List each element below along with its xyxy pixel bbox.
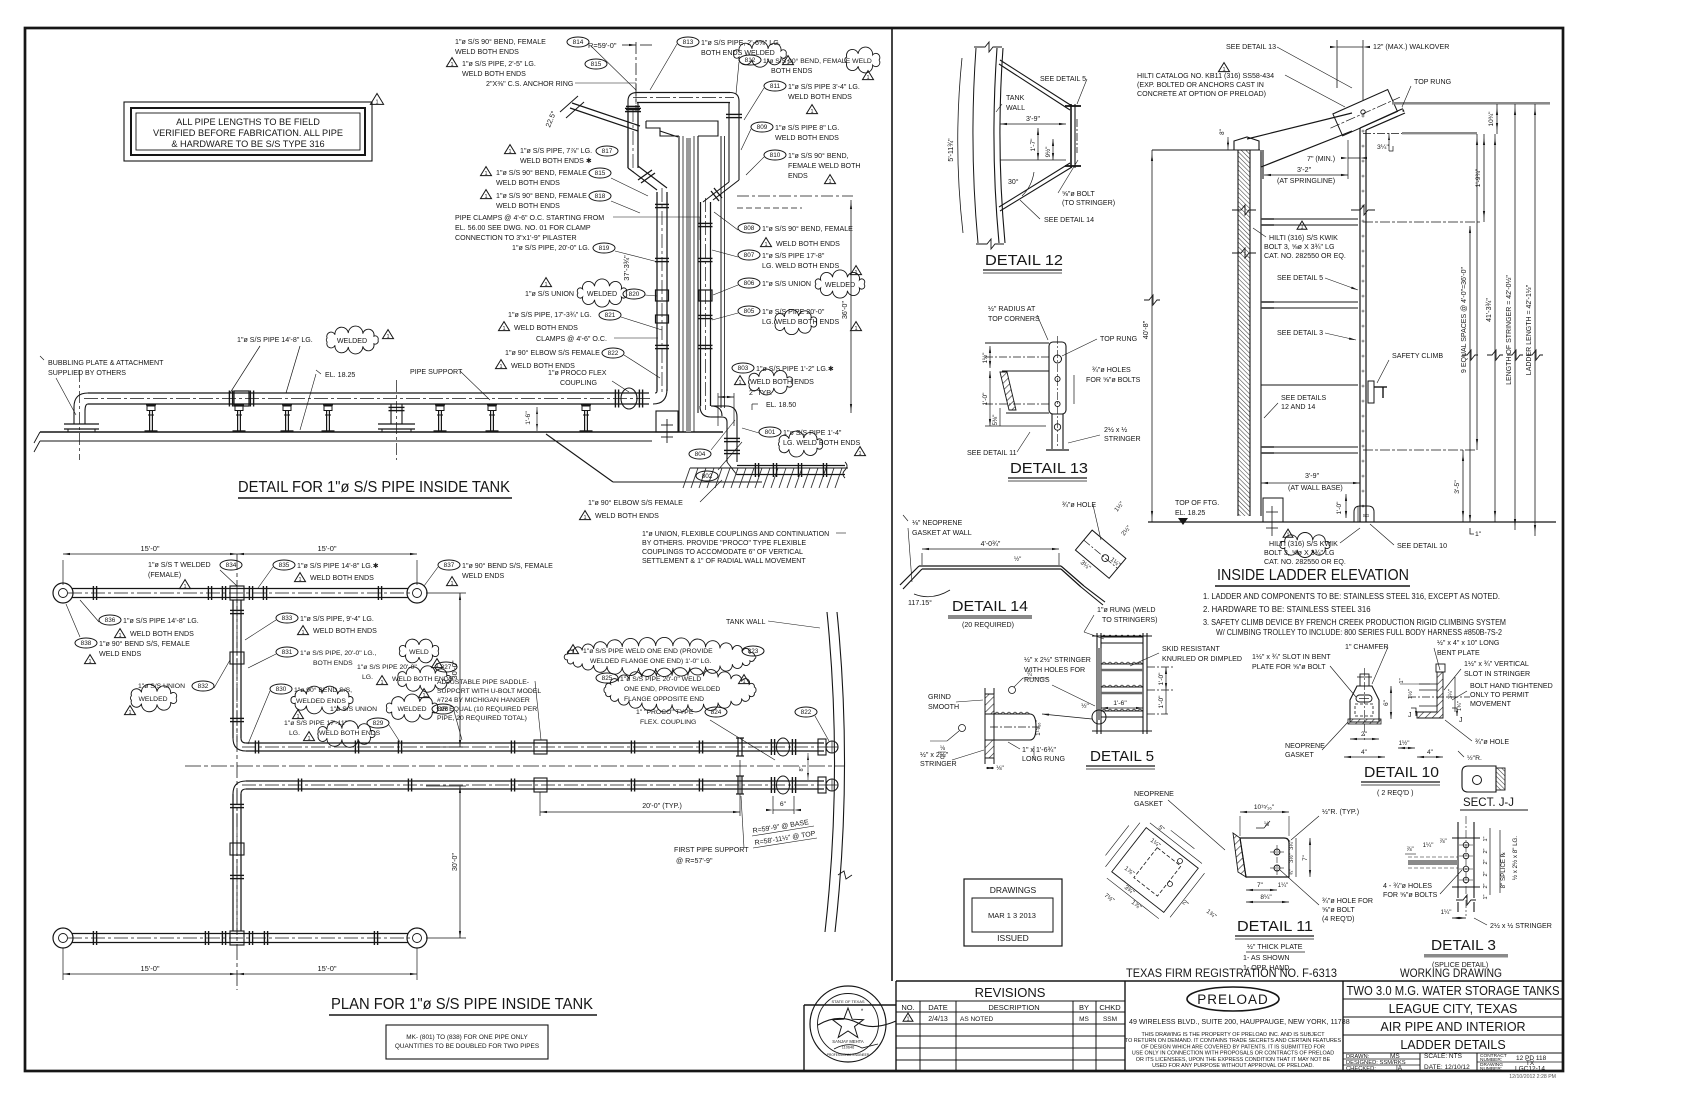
- plan 30-0 dims right: [426, 592, 466, 594]
- svg-text:2"X⅜" C.S. ANCHOR RING: 2"X⅜" C.S. ANCHOR RING: [486, 80, 573, 88]
- svg-text:GASKET: GASKET: [1134, 800, 1163, 808]
- callout 805: [738, 306, 760, 316]
- svg-text:1"ø S/S 90° BEND, FEMALE: 1"ø S/S 90° BEND, FEMALE: [496, 169, 587, 177]
- svg-text:1½": 1½": [982, 353, 989, 364]
- svg-text:⅞": ⅞": [1439, 838, 1446, 845]
- svg-text:SUPPORT WITH U-BOLT MODEL: SUPPORT WITH U-BOLT MODEL: [437, 688, 541, 695]
- top horizontal pipe of riser: [637, 92, 730, 94]
- svg-text:1'-0": 1'-0": [1158, 672, 1165, 686]
- svg-text:8¼": 8¼": [1260, 894, 1272, 901]
- svg-text:1: 1: [583, 515, 586, 521]
- ladder top bent walkover: [1360, 109, 1405, 130]
- svg-text:1¼": 1¼": [1423, 842, 1434, 849]
- svg-text:12 AND 14: 12 AND 14: [1281, 403, 1315, 411]
- svg-text:814: 814: [573, 39, 584, 46]
- svg-text:15'-0": 15'-0": [140, 964, 159, 973]
- svg-text:SCALE: NTS: SCALE: NTS: [1424, 1053, 1463, 1060]
- dim length of stringer: [1514, 104, 1516, 530]
- svg-text:2": 2": [1483, 883, 1489, 888]
- svg-text:1"ø S/S PIPE, 2'-5" LG.: 1"ø S/S PIPE, 2'-5" LG.: [462, 60, 536, 68]
- svg-text:824: 824: [711, 709, 722, 716]
- callout 815 top: [447, 58, 458, 67]
- detail 5 weld symbols: [1009, 687, 1016, 694]
- svg-text:DETAIL 3: DETAIL 3: [1431, 938, 1496, 954]
- ladder base shoe: [1354, 506, 1374, 522]
- proco flex coupling elevation: [614, 390, 616, 408]
- svg-text:DETAIL 10: DETAIL 10: [1364, 765, 1439, 781]
- svg-text:1: 1: [858, 451, 861, 457]
- svg-text:AIR PIPE AND INTERIOR: AIR PIPE AND INTERIOR: [1380, 1020, 1525, 1034]
- svg-text:3'-9": 3'-9": [1305, 472, 1320, 480]
- svg-text:1: 1: [866, 75, 869, 81]
- svg-text:½" x 4" x 10" LONG: ½" x 4" x 10" LONG: [1437, 639, 1499, 647]
- svg-text:WELDED ENDS: WELDED ENDS: [296, 698, 346, 705]
- plan upper main elbow: [233, 738, 246, 751]
- svg-text:DETAIL 14: DETAIL 14: [952, 599, 1028, 615]
- svg-text:SECT. J-J: SECT. J-J: [1463, 797, 1514, 809]
- main horizontal pipe elevation: [88, 392, 649, 394]
- detail 10 gasket strip: [1348, 719, 1381, 724]
- union on left riser: [656, 290, 669, 301]
- svg-text:819: 819: [599, 245, 610, 252]
- under floor pipe run: [737, 465, 845, 467]
- svg-text:⅛" NEOPRENE: ⅛" NEOPRENE: [912, 519, 962, 527]
- svg-text:THIS DRAWING IS THE PROPERTY O: THIS DRAWING IS THE PROPERTY OF PRELOAD …: [1141, 1032, 1325, 1038]
- svg-text:1: 1: [375, 99, 378, 105]
- svg-text:1"ø S/S PIPE, 7⅞" LG.: 1"ø S/S PIPE, 7⅞" LG.: [520, 147, 592, 155]
- svg-text:1: 1: [484, 194, 487, 200]
- svg-text:4": 4": [1427, 749, 1434, 756]
- svg-text:WELDED: WELDED: [587, 290, 617, 298]
- callout 801: [759, 427, 781, 437]
- pipe supports elevation: [146, 404, 156, 406]
- svg-text:ONLY TO PERMIT: ONLY TO PERMIT: [1470, 691, 1530, 699]
- svg-text:⅝"ø BOLT: ⅝"ø BOLT: [1062, 190, 1095, 198]
- detail 13 plate: [1049, 342, 1066, 414]
- plan mk note box: [386, 1025, 548, 1059]
- svg-text:MS: MS: [1390, 1053, 1400, 1060]
- callout 838: [75, 638, 97, 648]
- svg-text:CAT. NO. 282550 OR EQ.: CAT. NO. 282550 OR EQ.: [1264, 252, 1346, 260]
- ladder top rail level lines: [1392, 102, 1550, 105]
- floor edge profile: [546, 434, 613, 482]
- svg-text:815: 815: [591, 61, 602, 68]
- svg-text:3¼": 3¼": [1377, 144, 1389, 151]
- ladder safety climb: [1368, 381, 1374, 403]
- title block data cells: [1342, 1053, 1344, 1071]
- svg-text:CAT. NO. 282550 OR EQ.: CAT. NO. 282550 OR EQ.: [1264, 558, 1346, 566]
- svg-text:804: 804: [695, 451, 706, 458]
- engineer seal: [810, 986, 886, 1062]
- svg-text:MOVEMENT: MOVEMENT: [1470, 700, 1512, 708]
- callout 833: [276, 613, 298, 623]
- springline dash dot to divider: [737, 195, 853, 197]
- svg-text:(TO STRINGER): (TO STRINGER): [1062, 199, 1115, 207]
- svg-text:1"ø S/S PIPE 20'-0": 1"ø S/S PIPE 20'-0": [357, 664, 417, 671]
- svg-text:½" THICK PLATE: ½" THICK PLATE: [1247, 943, 1303, 951]
- svg-text:3'-2": 3'-2": [1297, 166, 1312, 174]
- svg-text:1- AS SHOWN: 1- AS SHOWN: [1243, 954, 1290, 962]
- svg-text:6": 6": [780, 801, 787, 808]
- svg-text:1: 1: [307, 736, 310, 742]
- svg-text:1"ø S/S 90° BEND,: 1"ø S/S 90° BEND,: [788, 152, 849, 160]
- svg-text:MK- (801) TO (838) FOR ONE PIP: MK- (801) TO (838) FOR ONE PIPE ONLY: [406, 1034, 528, 1041]
- svg-text:818: 818: [595, 193, 606, 200]
- svg-text:BOTH ENDS: BOTH ENDS: [771, 67, 813, 75]
- svg-text:5⅜": 5⅜": [992, 415, 999, 426]
- svg-text:LG. WELD BOTH ENDS: LG. WELD BOTH ENDS: [762, 262, 840, 270]
- svg-text:SUPPLIED BY OTHERS: SUPPLIED BY OTHERS: [48, 369, 126, 377]
- svg-text:1"ø S/S PIPE 20'-0" WELD: 1"ø S/S PIPE 20'-0" WELD: [620, 676, 701, 683]
- wall corbel top: [646, 121, 718, 137]
- svg-text:837: 837: [444, 562, 455, 569]
- detail 5 dash extensions: [1147, 666, 1175, 668]
- svg-text:SEE DETAIL 5: SEE DETAIL 5: [1277, 274, 1323, 282]
- svg-text:(EXP. BOLTED OR ANCHORS CAST I: (EXP. BOLTED OR ANCHORS CAST IN: [1137, 81, 1264, 89]
- svg-text:1: 1: [502, 326, 505, 332]
- svg-text:9½": 9½": [1045, 147, 1052, 158]
- ladder stringer: [1359, 128, 1361, 522]
- svg-text:1¾": 1¾": [1457, 701, 1463, 711]
- svg-text:WELD BOTH ENDS: WELD BOTH ENDS: [595, 512, 659, 520]
- svg-text:DETAIL 5: DETAIL 5: [1090, 749, 1154, 765]
- svg-text:1"ø 90° BEND S/S, FEMALE: 1"ø 90° BEND S/S, FEMALE: [462, 562, 553, 570]
- svg-text:(SPLICE DETAIL): (SPLICE DETAIL): [1432, 961, 1488, 969]
- svg-text:TANK WALL: TANK WALL: [726, 618, 765, 626]
- svg-text:1'-6": 1'-6": [1113, 700, 1127, 707]
- svg-text:822: 822: [608, 350, 619, 357]
- svg-text:1"ø PROCO FLEX: 1"ø PROCO FLEX: [548, 369, 607, 377]
- svg-text:GASKET: GASKET: [1285, 751, 1314, 759]
- svg-text:SEE DETAIL 11: SEE DETAIL 11: [967, 449, 1017, 457]
- detail 12 bottom brace: [999, 163, 1070, 207]
- svg-text:DETAIL 11: DETAIL 11: [1237, 919, 1313, 935]
- svg-text:WELD BOTH ENDS: WELD BOTH ENDS: [788, 93, 852, 101]
- svg-text:WELD BOTH ENDS: WELD BOTH ENDS: [750, 378, 814, 386]
- svg-text:802: 802: [702, 473, 713, 480]
- svg-text:NUMBER:: NUMBER:: [1480, 1066, 1502, 1072]
- svg-text:SSM: SSM: [1103, 1016, 1117, 1023]
- svg-text:WELD BOTH ENDS: WELD BOTH ENDS: [496, 179, 560, 187]
- callout 825: [596, 673, 618, 683]
- svg-text:1"ø S/S T WELDED: 1"ø S/S T WELDED: [148, 561, 211, 569]
- callout 808: [738, 223, 760, 233]
- svg-text:EL. 18.25: EL. 18.25: [1175, 509, 1205, 517]
- plan top pipe: [72, 588, 408, 590]
- flanges on right riser: [699, 222, 713, 224]
- svg-text:DRAWINGS: DRAWINGS: [990, 885, 1037, 895]
- svg-text:TEXAS FIRM REGISTRATION NO. F-: TEXAS FIRM REGISTRATION NO. F-6313: [1126, 968, 1337, 980]
- svg-text:½" RADIUS AT: ½" RADIUS AT: [988, 305, 1036, 313]
- svg-text:1'-0": 1'-0": [1158, 695, 1165, 709]
- svg-text:WELD BOTH ENDS: WELD BOTH ENDS: [514, 324, 578, 332]
- svg-text:DESCRIPTION: DESCRIPTION: [988, 1003, 1039, 1012]
- detail 5 rungs: [1101, 636, 1143, 638]
- svg-text:1. LADDER AND COMPONENTS TO B: 1. LADDER AND COMPONENTS TO BE: STAINLES…: [1203, 592, 1500, 601]
- svg-text:STATE OF TEXAS: STATE OF TEXAS: [831, 999, 864, 1004]
- svg-text:STRINGER: STRINGER: [1104, 435, 1141, 443]
- svg-text:1: 1: [1300, 225, 1303, 231]
- ladder dome slope: [1247, 113, 1352, 139]
- detail 12 stringer: [1070, 104, 1072, 168]
- svg-text:1: 1: [854, 326, 857, 332]
- ladder elevation wall: [1238, 150, 1250, 516]
- svg-text:HILTI CATALOG NO. KB11 (316) S: HILTI CATALOG NO. KB11 (316) SS58-434: [1137, 72, 1274, 80]
- svg-text:STRINGER: STRINGER: [920, 760, 957, 768]
- detail 10 bent plate profile: [1350, 686, 1379, 722]
- svg-text:SEE DETAILS: SEE DETAILS: [1281, 394, 1326, 402]
- svg-text:8" SPLICE ℞: 8" SPLICE ℞: [1500, 852, 1507, 889]
- svg-text:WELD BOTH ENDS ✱: WELD BOTH ENDS ✱: [520, 157, 592, 165]
- svg-text:834: 834: [226, 562, 237, 569]
- svg-text:USED FOR ANY PURPOSE WITHOUT A: USED FOR ANY PURPOSE WITHOUT APPROVAL OF…: [1152, 1063, 1314, 1069]
- svg-text:SETTLEMENT & 1" OF RADIAL WALL: SETTLEMENT & 1" OF RADIAL WALL MOVEMENT: [642, 558, 806, 565]
- svg-text:15'-0": 15'-0": [317, 544, 336, 553]
- dim ladder length: [1534, 104, 1536, 536]
- svg-text:TOP CORNERS: TOP CORNERS: [988, 315, 1040, 323]
- svg-text:1"ø S/S PIPE 17'-11": 1"ø S/S PIPE 17'-11": [284, 720, 348, 727]
- svg-text:803: 803: [738, 365, 749, 372]
- svg-text:LG. WELD BOTH ENDS: LG. WELD BOTH ENDS: [762, 318, 840, 326]
- detail 5 circle callout: [1092, 710, 1106, 724]
- svg-text:835: 835: [279, 562, 290, 569]
- svg-text:1" x 1'-6¾": 1" x 1'-6¾": [1022, 746, 1056, 754]
- svg-text:FIRST PIPE SUPPORT: FIRST PIPE SUPPORT: [674, 846, 749, 854]
- svg-text:BOLT 3, ⅝ø X 3¾" LG: BOLT 3, ⅝ø X 3¾" LG: [1264, 243, 1334, 251]
- svg-text:1" "PROCO" TYPE: 1" "PROCO" TYPE: [636, 709, 694, 716]
- svg-text:DETAIL 13: DETAIL 13: [1010, 461, 1088, 477]
- underfloor pipe break: [843, 462, 847, 478]
- svg-text:1: 1: [828, 179, 831, 185]
- detail 14 angle arc: [914, 590, 950, 597]
- detail 10 right dims: [1400, 683, 1430, 685]
- drawings issued stamp: [964, 879, 1062, 946]
- svg-text:10¾": 10¾": [1488, 111, 1495, 127]
- svg-text:REVISIONS: REVISIONS: [975, 985, 1046, 1000]
- svg-text:WELDED FLANGE ONE END) 1'-0" L: WELDED FLANGE ONE END) 1'-0" LG.: [590, 658, 712, 665]
- detail 3 splice bar: [1457, 822, 1459, 898]
- svg-text:LGC12-14: LGC12-14: [1515, 1066, 1545, 1073]
- svg-text:1"ø S/S PIPE 3'-4" LG.: 1"ø S/S PIPE 3'-4" LG.: [788, 83, 860, 91]
- svg-text:SEE DETAIL 10: SEE DETAIL 10: [1397, 542, 1447, 550]
- svg-text:2" TYP.: 2" TYP.: [749, 390, 772, 397]
- svg-text:823: 823: [748, 648, 759, 655]
- svg-text:1"ø S/S PIPE 17'-8": 1"ø S/S PIPE 17'-8": [762, 252, 825, 260]
- svg-text:1"ø 90° ELBOW S/S FEMALE: 1"ø 90° ELBOW S/S FEMALE: [588, 499, 683, 507]
- svg-text:NO.: NO.: [901, 1003, 914, 1012]
- plan vertical pipe upper: [232, 600, 234, 738]
- svg-text:1: 1: [508, 149, 511, 155]
- svg-text:2½ x ½: 2½ x ½: [1104, 426, 1127, 434]
- title block outline: [896, 980, 1563, 982]
- svg-text:DATE: DATE: [928, 1003, 947, 1012]
- svg-text:WELDED: WELDED: [397, 706, 426, 713]
- svg-text:1: 1: [764, 242, 767, 248]
- svg-text:1: 1: [183, 584, 186, 590]
- note box warning triangle: [370, 94, 383, 105]
- svg-text:SAFETY CLIMB: SAFETY CLIMB: [1392, 352, 1443, 360]
- svg-text:PIPE CLAMPS @ 4'-6" O.C. START: PIPE CLAMPS @ 4'-6" O.C. STARTING FROM: [455, 214, 604, 222]
- callout 812: [739, 55, 761, 65]
- svg-text:2": 2": [1483, 848, 1489, 853]
- svg-text:¾"ø HOLE FOR: ¾"ø HOLE FOR: [1322, 897, 1373, 905]
- svg-text:2": 2": [1483, 871, 1489, 876]
- callout 809: [751, 122, 773, 132]
- preload logo: [1187, 987, 1279, 1011]
- callout 803: [732, 363, 754, 373]
- svg-text:1"ø S/S PIPE 14'-8" LG.: 1"ø S/S PIPE 14'-8" LG.: [237, 336, 313, 344]
- svg-text:KNURLED OR DIMPLED: KNURLED OR DIMPLED: [1162, 655, 1242, 663]
- svg-text:1"ø S/S UNION: 1"ø S/S UNION: [525, 290, 574, 298]
- detail 11 holes: [1274, 849, 1280, 855]
- svg-text:820: 820: [629, 291, 640, 298]
- svg-text:1: 1: [386, 334, 389, 340]
- detail 5 rung section: [985, 694, 994, 714]
- svg-text:¾": ¾": [1289, 869, 1295, 876]
- svg-text:1"ø 90° BEND S/S, FEMALE: 1"ø 90° BEND S/S, FEMALE: [99, 640, 190, 648]
- svg-text:1: 1: [118, 633, 121, 639]
- svg-text:1: 1: [88, 659, 91, 665]
- svg-text:WELD BOTH ENDS: WELD BOTH ENDS: [130, 630, 194, 638]
- svg-text:8": 8": [1219, 129, 1226, 135]
- plan 20-0 typ dim: [539, 792, 541, 816]
- svg-text:EL. 56.00 SEE DWG. NO. 01 FOR: EL. 56.00 SEE DWG. NO. 01 FOR CLAMP: [455, 224, 591, 232]
- svg-text:1: 1: [450, 581, 453, 587]
- plan bottom tee: [230, 931, 244, 945]
- svg-text:831: 831: [282, 649, 293, 656]
- callout 830: [270, 684, 292, 694]
- svg-text:805: 805: [744, 308, 755, 315]
- svg-text:37'-3¾": 37'-3¾": [622, 255, 631, 281]
- callout 804 802: [689, 449, 711, 459]
- svg-text:1"ø S/S PIPE, 17'-3¾" LG.: 1"ø S/S PIPE, 17'-3¾" LG.: [508, 311, 592, 319]
- svg-text:SG: SG: [1363, 513, 1370, 518]
- svg-text:1'-0": 1'-0": [1336, 501, 1343, 515]
- svg-text:½" x 2½": ½" x 2½": [920, 751, 949, 759]
- svg-text:⅛": ⅛": [996, 765, 1004, 772]
- svg-text:2. HARDWARE TO BE: STAINLESS: 2. HARDWARE TO BE: STAINLESS STEEL 316: [1203, 605, 1371, 614]
- svg-text:2/4/13: 2/4/13: [928, 1016, 948, 1023]
- svg-text:ADJUSTABLE PIPE SADDLE-: ADJUSTABLE PIPE SADDLE-: [437, 679, 529, 686]
- hilti kwik bolt note: [1297, 221, 1307, 229]
- base right elbow chain: [700, 406, 722, 417]
- svg-text:830: 830: [276, 686, 287, 693]
- detail 12 dim 5-11.75: [958, 58, 963, 233]
- callout 810: [764, 150, 786, 160]
- svg-text:SKID RESISTANT: SKID RESISTANT: [1162, 645, 1220, 653]
- flanges on left riser: [655, 203, 669, 205]
- svg-text:MS: MS: [1079, 1016, 1089, 1023]
- plan top dimension: [62, 560, 64, 585]
- svg-text:COUPLING: COUPLING: [560, 379, 597, 387]
- plan 6 inch dim: [772, 796, 774, 814]
- svg-text:J: J: [1459, 717, 1463, 724]
- svg-text:809: 809: [757, 124, 768, 131]
- svg-text:836: 836: [105, 617, 116, 624]
- svg-text:3¼": 3¼": [1448, 689, 1454, 699]
- svg-text:WELD BOTH ENDS: WELD BOTH ENDS: [775, 134, 839, 142]
- svg-text:1"ø S/S 90° BEND, FEMALE: 1"ø S/S 90° BEND, FEMALE: [455, 38, 546, 46]
- riser right pipe: [700, 202, 702, 406]
- svg-text:3'-9": 3'-9": [1026, 116, 1040, 123]
- svg-text:1"ø 90° ELBOW S/S FEMALE: 1"ø 90° ELBOW S/S FEMALE: [505, 349, 600, 357]
- plan bottom pipe: [72, 933, 408, 935]
- svg-text:1"ø UNION, FLEXIBLE COUPLINGS: 1"ø UNION, FLEXIBLE COUPLINGS AND CONTIN…: [642, 531, 829, 538]
- svg-text:BOLT HAND TIGHTENED: BOLT HAND TIGHTENED: [1470, 682, 1553, 690]
- svg-text:1: 1: [484, 171, 487, 177]
- svg-text:1: 1: [499, 364, 502, 370]
- callout 836: [99, 615, 121, 625]
- svg-text:⅝"ø BOLT: ⅝"ø BOLT: [1322, 906, 1355, 914]
- svg-text:WELD BOTH ENDS: WELD BOTH ENDS: [462, 70, 526, 78]
- svg-text:J: J: [1408, 712, 1412, 719]
- note box all pipe lengths: [124, 102, 372, 161]
- svg-text:AS NOTED: AS NOTED: [960, 1016, 994, 1023]
- svg-text:3¼": 3¼": [1289, 840, 1295, 850]
- svg-text:9 EQUAL SPACES @ 4'-0"=36'-0": 9 EQUAL SPACES @ 4'-0"=36'-0": [1461, 266, 1468, 373]
- svg-text:CONNECTION TO 3"x1'-9" PILASTE: CONNECTION TO 3"x1'-9" PILASTER: [455, 234, 577, 242]
- detail 12 tank wall arcs: [973, 48, 978, 243]
- svg-text:1'-6": 1'-6": [525, 411, 532, 425]
- svg-text:PIPE SUPPORT: PIPE SUPPORT: [410, 368, 463, 376]
- svg-text:GRIND: GRIND: [928, 693, 951, 701]
- svg-text:LENGTH OF STRINGER = 42'-0½": LENGTH OF STRINGER = 42'-0½": [1505, 275, 1513, 385]
- svg-text:(AT WALL BASE): (AT WALL BASE): [1288, 484, 1343, 492]
- svg-text:30'-0": 30'-0": [451, 852, 459, 871]
- svg-text:12/10/2012 2:28 PM: 12/10/2012 2:28 PM: [1509, 1074, 1556, 1080]
- callout 820: [541, 278, 552, 287]
- detail 13 holes: [1054, 355, 1062, 363]
- svg-text:WELDED: WELDED: [138, 696, 167, 703]
- callout 811: [764, 81, 786, 91]
- svg-text:1"ø S/S UNION: 1"ø S/S UNION: [330, 706, 377, 713]
- ladder wall corbel top: [1234, 137, 1263, 179]
- svg-text:TOP OF FTG.: TOP OF FTG.: [1175, 499, 1219, 507]
- svg-text:1¼": 1¼": [1441, 909, 1452, 916]
- svg-text:12" (MAX.) WALKOVER: 12" (MAX.) WALKOVER: [1373, 43, 1449, 51]
- svg-text:WELD BOTH ENDS: WELD BOTH ENDS: [496, 202, 560, 210]
- svg-text:49 WIRELESS BLVD., SUITE 200,: 49 WIRELESS BLVD., SUITE 200, HAUPPAUGE,…: [1129, 1018, 1350, 1026]
- svg-text:FLEX. COUPLING: FLEX. COUPLING: [640, 719, 696, 726]
- tank wall arc plan: [825, 612, 835, 932]
- dim 3-5: [1462, 450, 1464, 522]
- svg-text:¾"ø HOLE: ¾"ø HOLE: [1062, 501, 1096, 509]
- svg-text:⅞": ⅞": [1406, 846, 1413, 853]
- svg-text:SEE DETAIL 14: SEE DETAIL 14: [1044, 216, 1094, 224]
- detail 3 splice plate edge: [1408, 860, 1458, 865]
- neoprene gasket rotated plate: [1095, 808, 1213, 923]
- svg-text:CONCRETE AT OPTION OF PRELOAD): CONCRETE AT OPTION OF PRELOAD): [1137, 90, 1266, 98]
- svg-text:117.15°: 117.15°: [908, 599, 932, 607]
- callout 818: [481, 190, 492, 199]
- svg-text:827: 827: [441, 664, 452, 671]
- riser left pipe: [627, 112, 629, 168]
- svg-text:( 2 REQ'D ): ( 2 REQ'D ): [1377, 789, 1413, 797]
- svg-text:1: 1: [810, 109, 813, 115]
- svg-text:806: 806: [744, 280, 755, 287]
- svg-text:812: 812: [745, 57, 756, 64]
- svg-text:1: 1: [544, 282, 547, 288]
- revision row 1: [903, 1013, 913, 1021]
- svg-text:½"R. (TYP.): ½"R. (TYP.): [1322, 808, 1359, 816]
- detail 11 plate: [1240, 838, 1289, 877]
- svg-text:LEAGUE CITY, TEXAS: LEAGUE CITY, TEXAS: [1389, 1002, 1518, 1016]
- ladder breaks: [1232, 205, 1256, 215]
- svg-text:LADDER DETAILS: LADDER DETAILS: [1400, 1038, 1505, 1052]
- tank floor line: [40, 431, 723, 433]
- svg-text:LG.: LG.: [362, 674, 373, 681]
- svg-text:WELD ENDS: WELD ENDS: [99, 650, 141, 658]
